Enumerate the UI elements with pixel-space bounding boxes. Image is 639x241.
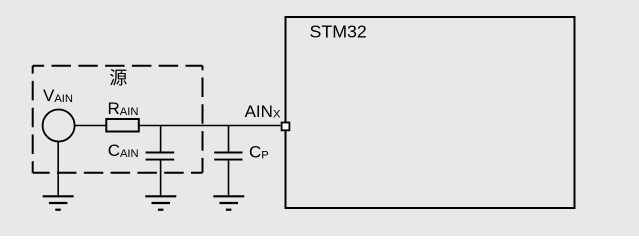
wire: C_P to ground <box>228 160 230 196</box>
wire: C_AIN to ground <box>160 160 162 196</box>
wire: junction down to C_P <box>228 126 230 153</box>
wire: resistor to pin <box>139 125 281 127</box>
dashed source box <box>33 66 203 173</box>
源 (source) label <box>110 69 127 86</box>
wire: source to ground <box>57 142 59 196</box>
voltage source V_AIN <box>43 110 75 142</box>
ground under C_P <box>213 196 244 209</box>
wire: source to resistor <box>75 125 107 127</box>
resistor R_AIN <box>106 119 139 132</box>
wire: junction down to C_AIN <box>160 126 162 153</box>
capacitor C_AIN <box>146 153 175 160</box>
ground under C_AIN <box>145 196 176 209</box>
ground under source <box>43 196 74 209</box>
svg-text:STM32: STM32 <box>310 22 367 42</box>
STM32 block U1 <box>286 17 575 208</box>
capacitor C_P <box>214 153 242 160</box>
pin AIN_X (node) <box>282 123 290 131</box>
